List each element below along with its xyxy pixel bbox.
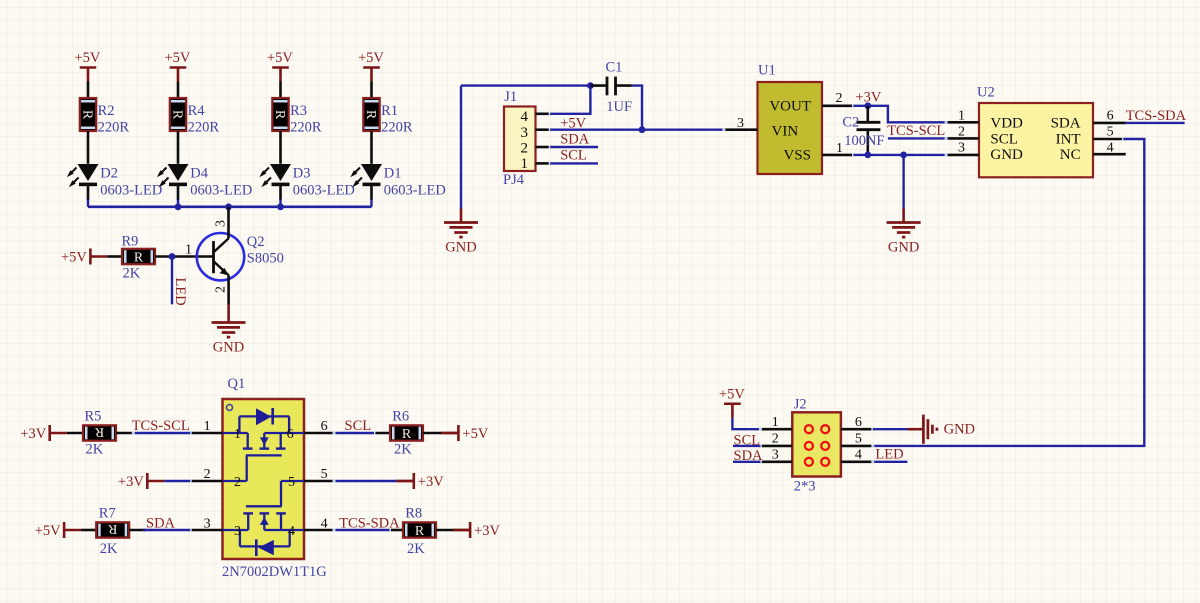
svg-text:LED: LED (172, 278, 188, 306)
pin stub 1 (822, 154, 854, 157)
svg-text:R: R (402, 427, 412, 442)
power +5V (358, 50, 384, 82)
wire (143, 529, 192, 531)
junction (277, 203, 284, 210)
junction (864, 102, 871, 109)
power +3V (397, 473, 444, 490)
wire (81, 529, 96, 532)
pin stub 5 (841, 445, 873, 448)
pin hole row 3 (805, 458, 829, 466)
wire (423, 432, 450, 435)
wire (732, 418, 760, 430)
resistor R9 (122, 249, 155, 266)
junction (225, 203, 232, 210)
svg-text:0603-LED: 0603-LED (293, 183, 355, 199)
wire (376, 432, 394, 435)
pin stub 4 (304, 529, 334, 532)
pin stub 2 (760, 445, 792, 448)
svg-text:2: 2 (213, 286, 228, 293)
svg-text:+3V: +3V (418, 474, 444, 490)
wire TCS-SDA (1126, 122, 1185, 124)
svg-text:D2: D2 (100, 166, 118, 182)
pin stub 3 (536, 128, 551, 131)
pin hole row 2 (805, 442, 829, 450)
junction (175, 203, 182, 210)
wire (87, 186, 90, 200)
svg-text:220R: 220R (290, 120, 322, 136)
wire (334, 432, 376, 434)
svg-text:S8050: S8050 (247, 251, 284, 267)
power +5V (165, 50, 191, 82)
svg-text:J2: J2 (794, 397, 807, 413)
svg-text:5: 5 (855, 432, 862, 447)
connector J2 (792, 412, 841, 476)
svg-text:R: R (107, 521, 117, 536)
svg-text:6: 6 (1107, 109, 1114, 124)
svg-text:1: 1 (234, 427, 241, 442)
svg-text:2*3: 2*3 (794, 479, 816, 495)
regulator U1 (758, 82, 823, 174)
wire +5V row (550, 128, 724, 130)
svg-text:TCS-SCL: TCS-SCL (132, 418, 190, 434)
wire (116, 432, 133, 435)
wire (550, 146, 598, 148)
svg-text:2: 2 (521, 140, 529, 156)
wire to ground (460, 86, 462, 210)
pin stub 1 (536, 162, 551, 165)
svg-text:GND: GND (445, 240, 476, 256)
svg-text:2: 2 (234, 475, 241, 490)
svg-text:220R: 220R (188, 120, 220, 136)
capacitor C1 (590, 77, 631, 96)
svg-text:3: 3 (772, 448, 779, 463)
wire to ground (902, 155, 904, 210)
svg-text:5: 5 (1107, 125, 1114, 140)
ground (887, 223, 921, 256)
power +5V (61, 249, 107, 266)
svg-text:1: 1 (185, 243, 192, 258)
svg-text:+3V: +3V (118, 474, 144, 490)
connector J1 (504, 107, 536, 172)
svg-text:SCL: SCL (990, 132, 1018, 148)
svg-text:2N7002DW1T1G: 2N7002DW1T1G (222, 564, 327, 580)
svg-text:0603-LED: 0603-LED (384, 183, 446, 199)
svg-text:C1: C1 (606, 60, 623, 76)
wire (874, 461, 907, 463)
svg-text:C2: C2 (842, 115, 859, 131)
wire (733, 461, 760, 463)
svg-text:+5V: +5V (462, 426, 488, 442)
svg-text:R: R (363, 110, 378, 120)
svg-text:R: R (169, 110, 184, 120)
svg-text:4: 4 (288, 524, 295, 539)
power +5V (267, 50, 293, 82)
svg-text:TCS-SCL: TCS-SCL (887, 123, 945, 139)
resistor R8 (403, 522, 436, 539)
svg-text:NC: NC (1060, 147, 1081, 163)
ground (444, 223, 478, 256)
wire (279, 131, 282, 164)
svg-text:2K: 2K (407, 541, 425, 557)
wire (550, 162, 598, 164)
svg-text:R9: R9 (122, 234, 139, 250)
wire (133, 432, 191, 434)
junction (864, 152, 871, 159)
svg-text:6: 6 (287, 427, 294, 442)
svg-text:SDA: SDA (1051, 116, 1081, 132)
LED D2 (67, 164, 99, 187)
power +5V (441, 425, 488, 442)
wire LED bus (88, 206, 372, 209)
svg-text:5: 5 (288, 475, 295, 490)
wire (873, 428, 908, 430)
pin hole row 1 (805, 425, 829, 433)
svg-text:PJ4: PJ4 (503, 172, 525, 188)
mosfet internals (223, 408, 305, 556)
svg-text:D4: D4 (190, 166, 208, 182)
svg-text:1UF: 1UF (606, 99, 632, 115)
svg-text:+3V: +3V (20, 426, 46, 442)
wire (436, 529, 462, 532)
resistor R6 (390, 425, 423, 442)
wire C1 to +5V net (632, 86, 642, 130)
svg-text:+5V: +5V (75, 50, 101, 66)
wire (164, 480, 191, 482)
ground (212, 323, 246, 356)
svg-text:R: R (134, 251, 144, 266)
pin stub 1 (192, 432, 223, 435)
svg-text:+5V: +5V (719, 386, 745, 402)
wire (279, 82, 282, 99)
pin stub 3 (192, 529, 223, 532)
pin stub 4 (1093, 153, 1126, 156)
svg-text:3: 3 (521, 125, 529, 141)
svg-text:R: R (415, 524, 425, 539)
power +5V (75, 50, 101, 82)
svg-text:R5: R5 (85, 409, 102, 425)
resistor R2 (79, 98, 96, 131)
svg-text:1: 1 (772, 415, 779, 430)
capacitor C2 (857, 106, 881, 155)
pin stub 4 (536, 113, 551, 116)
svg-text:R1: R1 (381, 103, 398, 119)
svg-text:+3V: +3V (474, 523, 500, 539)
svg-text:R: R (272, 110, 287, 120)
pin stub 3 (724, 128, 758, 131)
svg-text:SCL: SCL (345, 418, 372, 434)
pin stub 5 (304, 480, 334, 483)
wire (733, 445, 760, 447)
svg-text:4: 4 (521, 109, 529, 125)
svg-text:TCS-SDA: TCS-SDA (1126, 108, 1187, 124)
svg-text:R3: R3 (290, 103, 307, 119)
svg-text:SCL: SCL (560, 148, 587, 164)
junction (639, 126, 646, 133)
wire pin4 to C1 (550, 86, 590, 114)
junction (900, 152, 907, 159)
ground (907, 415, 975, 444)
svg-text:2: 2 (772, 432, 779, 447)
svg-text:+5V: +5V (165, 50, 191, 66)
wire (177, 131, 180, 164)
svg-text:SDA: SDA (560, 132, 590, 148)
wire (334, 480, 397, 482)
svg-text:INT: INT (1056, 132, 1081, 148)
svg-text:3: 3 (958, 141, 965, 156)
svg-text:1: 1 (204, 419, 211, 434)
wire (370, 131, 373, 164)
svg-text:2K: 2K (394, 442, 412, 458)
wire LED net (171, 257, 173, 305)
svg-text:R6: R6 (392, 409, 409, 425)
wire (155, 255, 214, 258)
resistor R3 (272, 98, 289, 131)
svg-text:VOUT: VOUT (769, 98, 811, 114)
svg-text:R: R (94, 424, 104, 439)
pin stub 2 (536, 146, 551, 149)
svg-text:GND: GND (990, 147, 1023, 163)
wire (370, 82, 373, 99)
LED D4 (157, 164, 189, 187)
svg-text:R7: R7 (99, 506, 116, 522)
resistor R1 (363, 98, 380, 131)
svg-text:R8: R8 (405, 506, 422, 522)
svg-text:Q1: Q1 (228, 376, 246, 392)
svg-text:+5V: +5V (35, 523, 61, 539)
svg-text:+5V: +5V (358, 50, 384, 66)
svg-text:GND: GND (944, 422, 975, 438)
svg-text:2K: 2K (86, 442, 104, 458)
transistor Q1 (223, 399, 305, 559)
svg-text:GND: GND (888, 240, 919, 256)
wire (87, 131, 90, 164)
svg-text:3: 3 (234, 524, 241, 539)
svg-text:0603-LED: 0603-LED (190, 183, 252, 199)
wire (129, 529, 146, 532)
pin stub 5 (1093, 138, 1123, 141)
wire (370, 186, 373, 200)
wire (391, 529, 406, 532)
svg-text:Q2: Q2 (247, 234, 265, 250)
pin stub 3 (760, 460, 792, 463)
junction (169, 253, 176, 260)
svg-text:220R: 220R (381, 120, 413, 136)
power +3V (118, 473, 164, 490)
LED D1 (350, 164, 382, 187)
svg-text:U1: U1 (758, 63, 776, 79)
svg-text:220R: 220R (98, 120, 130, 136)
wire (177, 186, 180, 200)
pin1 indicator (227, 405, 233, 411)
wire (107, 255, 122, 258)
svg-text:R4: R4 (188, 103, 206, 119)
power +3V (453, 522, 500, 539)
wire (87, 82, 90, 99)
wire (334, 529, 391, 531)
svg-text:VSS: VSS (783, 147, 811, 163)
wire (67, 432, 83, 435)
power +5V (35, 522, 81, 539)
svg-text:3: 3 (213, 220, 228, 227)
pin stub 6 (841, 428, 873, 431)
svg-text:U2: U2 (977, 85, 995, 101)
pin stub 6 (1093, 122, 1126, 125)
resistor R4 (169, 98, 186, 131)
wire TCS-SCL (888, 137, 946, 139)
junction (587, 82, 594, 89)
svg-text:R2: R2 (98, 103, 115, 119)
svg-text:2K: 2K (123, 266, 141, 282)
resistor R7 (96, 521, 129, 538)
svg-text:+5V: +5V (267, 50, 293, 66)
pin stub 6 (304, 432, 334, 435)
pin stub 1 (760, 428, 792, 431)
power +5V (719, 386, 745, 418)
svg-text:VDD: VDD (990, 116, 1023, 132)
pin stub 2 (192, 480, 223, 483)
pin stub 2 (822, 105, 854, 108)
IC U2 (979, 103, 1093, 177)
svg-text:0603-LED: 0603-LED (100, 183, 162, 199)
wire VOUT to U2 (854, 106, 947, 123)
svg-text:2K: 2K (100, 541, 118, 557)
svg-text:+5V: +5V (61, 250, 87, 266)
svg-text:D1: D1 (384, 166, 402, 182)
svg-text:6: 6 (855, 415, 862, 430)
svg-text:LED: LED (875, 447, 903, 463)
svg-text:2: 2 (836, 91, 843, 106)
wire VSS row (854, 154, 947, 156)
svg-text:6: 6 (321, 419, 328, 434)
pin stub 4 (841, 460, 873, 463)
svg-text:VIN: VIN (772, 123, 799, 139)
power +3V (20, 425, 66, 442)
LED D3 (259, 164, 291, 187)
wire (177, 82, 180, 99)
svg-text:4: 4 (855, 448, 862, 463)
wire top (461, 84, 590, 86)
transistor Q2 (197, 207, 244, 305)
pin stub 3 (946, 154, 979, 157)
pin stub 1 (946, 121, 979, 124)
svg-text:100NF: 100NF (844, 133, 884, 149)
svg-text:D3: D3 (293, 166, 311, 182)
svg-text:J1: J1 (504, 89, 517, 105)
pin stub 2 (946, 137, 979, 140)
resistor R5 (83, 424, 116, 441)
svg-text:R: R (79, 110, 94, 120)
wire (227, 305, 230, 322)
wire (279, 186, 282, 200)
svg-text:1: 1 (521, 156, 529, 172)
wire INT to J2 (873, 139, 1145, 446)
svg-text:GND: GND (213, 340, 244, 356)
